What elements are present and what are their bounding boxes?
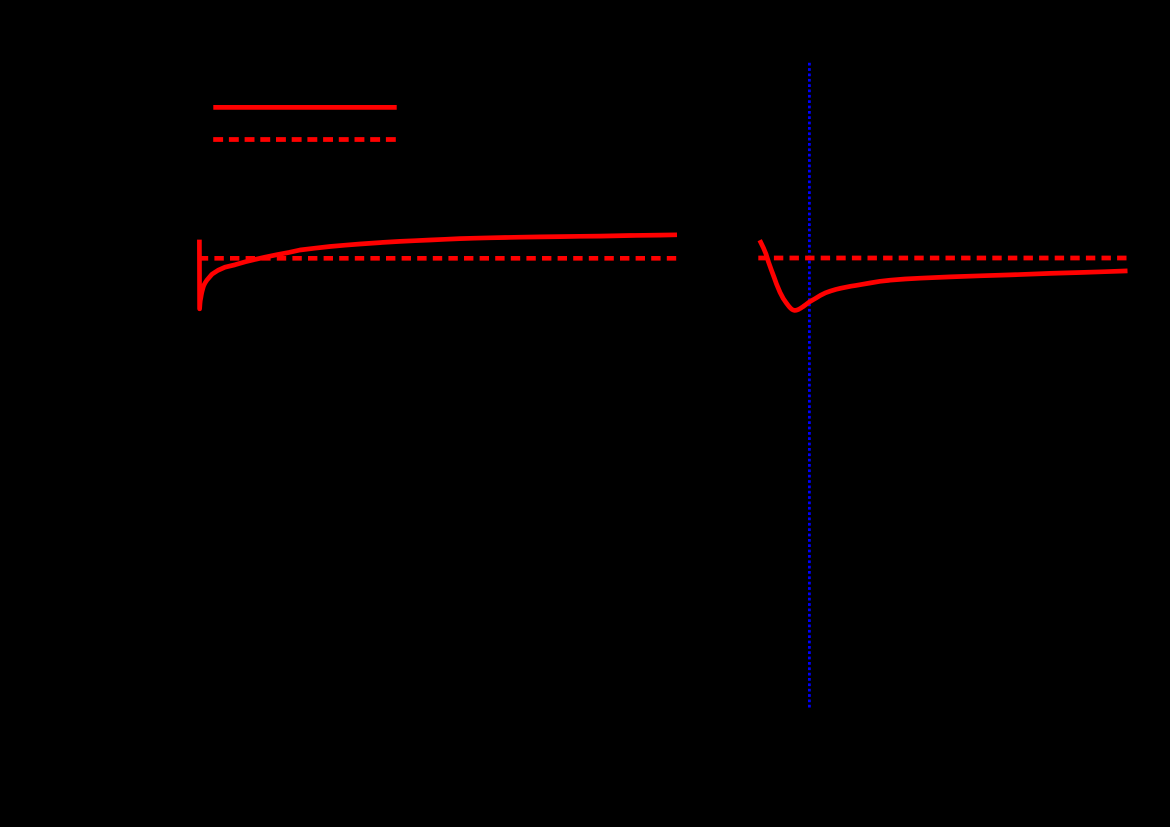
right panel dashed red horizontal line	[758, 256, 1127, 261]
legend solid red line	[213, 105, 396, 110]
left panel solid red curve	[199, 235, 677, 309]
legend dashed red line	[213, 137, 397, 142]
blue dotted vertical line (right panel)	[808, 63, 811, 709]
left panel dashed red horizontal line	[199, 256, 677, 261]
right panel solid red curve	[760, 240, 1128, 310]
